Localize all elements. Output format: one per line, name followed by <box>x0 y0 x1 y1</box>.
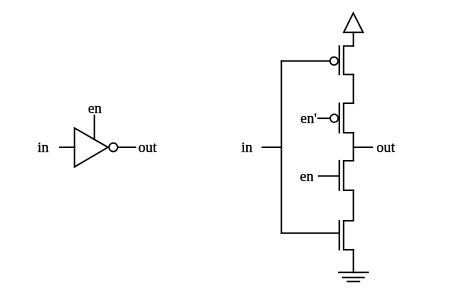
VDD power symbol <box>344 13 363 32</box>
wire N2 source to ground <box>352 250 354 273</box>
wire P1 drain to P2 source <box>352 75 354 104</box>
label en (symbol enable) <box>88 101 102 117</box>
svg-text:en: en <box>88 101 102 117</box>
wire P2 drain to node out <box>352 133 354 148</box>
label out (symbol output) <box>138 140 157 156</box>
wire en to symbol <box>93 115 95 139</box>
wire input bus (vertical) <box>280 61 282 233</box>
ground symbol <box>339 272 368 281</box>
label en' (P2 gate) <box>300 111 316 127</box>
wire in to input bus <box>262 146 281 148</box>
transistor P2 (PMOS, gate = en') <box>330 103 353 132</box>
bubble (symbol output inversion) <box>109 143 118 152</box>
svg-text:out: out <box>377 140 396 156</box>
wire in to symbol <box>60 146 75 148</box>
wire N1 source to N2 drain <box>352 190 354 221</box>
svg-text:en: en <box>300 169 314 185</box>
wire VDD to P1 source <box>352 32 354 46</box>
tri-state inverter symbol U1 (triangle) <box>75 128 109 167</box>
wire input bus to P1 gate <box>281 60 330 62</box>
wire symbol to out <box>118 146 135 148</box>
label in (schematic input) <box>241 140 253 156</box>
svg-text:in: in <box>38 140 50 156</box>
svg-text:en': en' <box>300 111 316 127</box>
transistor N1 (NMOS, gate = en) <box>339 161 353 191</box>
wire en' to P2 gate <box>318 117 330 119</box>
node out wire stub <box>353 146 372 148</box>
svg-text:in: in <box>241 140 253 156</box>
label in (symbol input) <box>38 140 50 156</box>
label out (output node) <box>377 140 396 156</box>
wire input bus to N2 gate <box>281 232 339 234</box>
wire node out to N1 drain <box>352 147 354 160</box>
svg-text:out: out <box>138 140 157 156</box>
wire en to N1 gate <box>319 175 340 177</box>
transistor N2 (NMOS, gate = in) <box>339 221 353 250</box>
label en (N1 gate) <box>300 169 314 185</box>
transistor P1 (PMOS, gate = in) <box>330 46 353 75</box>
